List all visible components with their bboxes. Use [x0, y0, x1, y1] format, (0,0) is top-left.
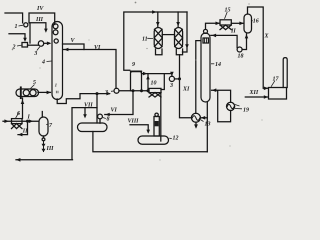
svg-text:3: 3 — [33, 51, 37, 57]
svg-text:VIII: VIII — [128, 119, 140, 125]
svg-text:9: 9 — [132, 62, 135, 68]
svg-text:III: III — [46, 146, 55, 152]
svg-text:III: III — [35, 17, 44, 23]
svg-text:18: 18 — [238, 54, 244, 60]
svg-text:1: 1 — [15, 24, 18, 30]
svg-text:3: 3 — [169, 83, 173, 89]
svg-text:15: 15 — [225, 8, 231, 14]
svg-text:16: 16 — [253, 18, 259, 24]
svg-text:17: 17 — [273, 77, 280, 83]
svg-text:IV: IV — [36, 6, 44, 12]
svg-text:13: 13 — [205, 122, 211, 128]
svg-text:12: 12 — [173, 136, 179, 142]
svg-text:11: 11 — [142, 37, 148, 43]
svg-text:10: 10 — [151, 80, 157, 86]
svg-text:XII: XII — [249, 90, 259, 96]
svg-text:II: II — [230, 28, 236, 34]
svg-text:4: 4 — [41, 60, 45, 66]
svg-text:II: II — [22, 129, 28, 135]
svg-text:19: 19 — [243, 108, 249, 114]
svg-text:VII: VII — [84, 103, 93, 109]
svg-text:VI: VI — [111, 107, 118, 113]
svg-text:XI: XI — [182, 86, 190, 92]
svg-text:8: 8 — [107, 117, 110, 123]
svg-text:14: 14 — [215, 62, 221, 68]
svg-text:1: 1 — [55, 83, 57, 88]
svg-text:VI: VI — [94, 45, 101, 51]
svg-text:6: 6 — [17, 111, 20, 117]
svg-text:3: 3 — [104, 90, 108, 96]
